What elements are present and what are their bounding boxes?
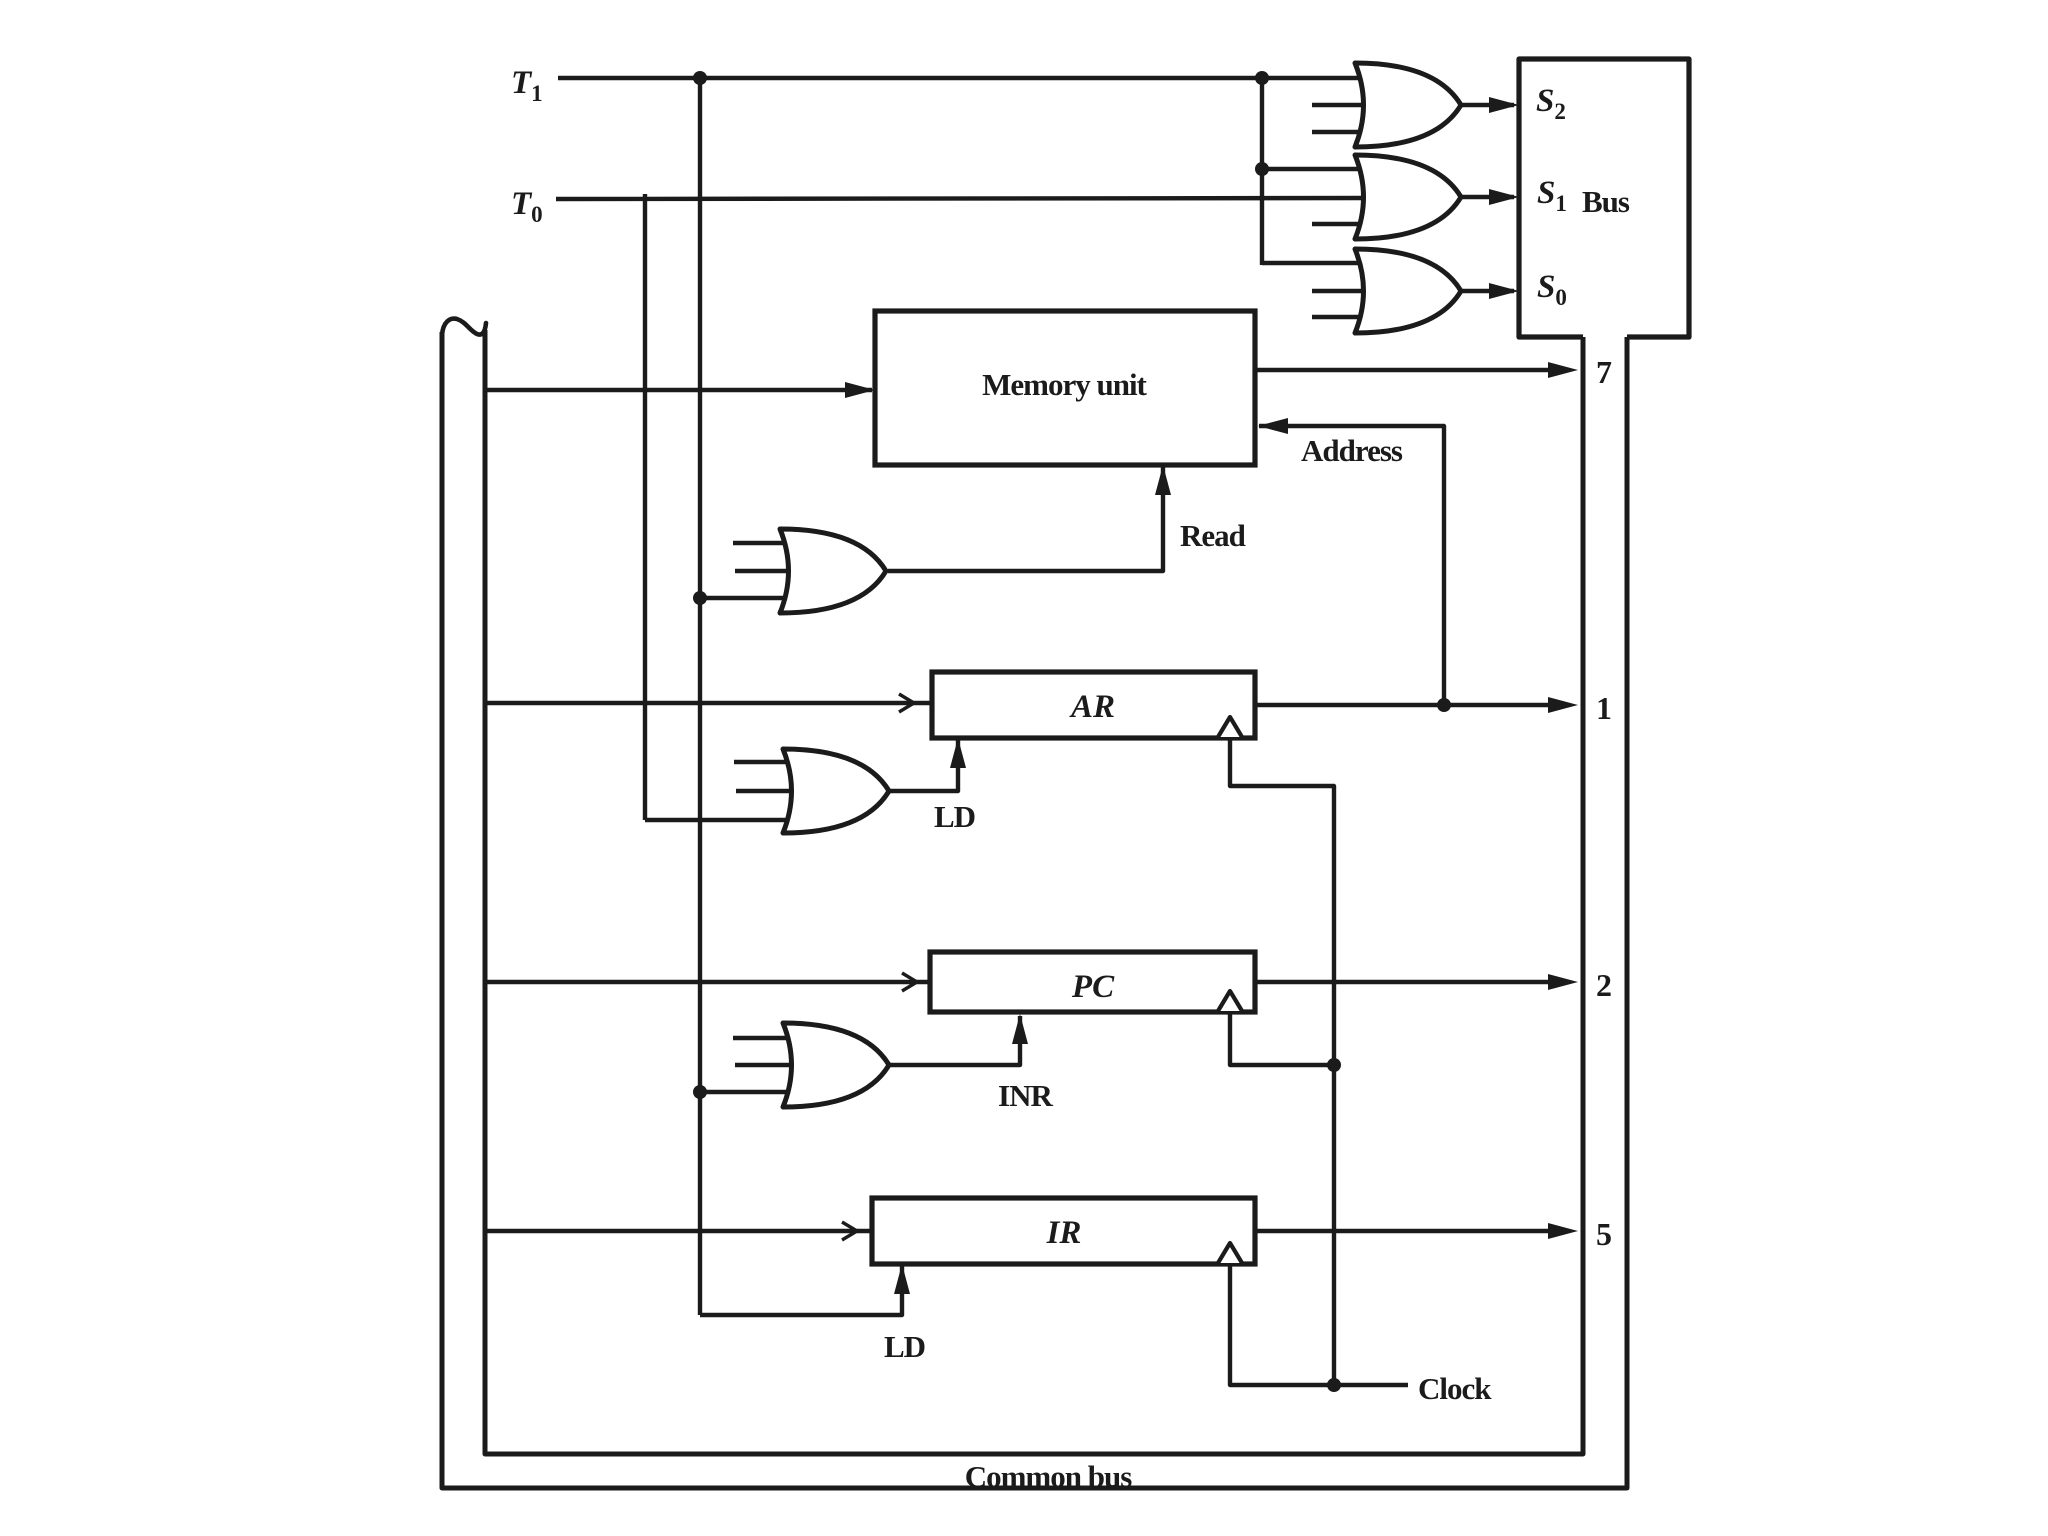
chevron arrow AR input <box>899 694 914 712</box>
svg-text:LD: LD <box>934 799 975 834</box>
arrow LD into AR <box>950 738 966 768</box>
chevron arrow PC input <box>902 973 917 991</box>
arrow bus 2 <box>1548 974 1578 990</box>
stub input LD-AR gate top <box>734 760 800 764</box>
svg-text:PC: PC <box>1071 969 1115 1005</box>
stub input LD-AR gate middle <box>736 789 798 793</box>
junction S1 branch <box>1255 162 1269 176</box>
stub input S1 gate bottom <box>1312 222 1370 226</box>
svg-text:Address: Address <box>1301 433 1403 468</box>
junction T1 right <box>1255 71 1269 85</box>
wire PC output to bus 2 <box>1255 980 1552 984</box>
g <box>1355 155 1461 239</box>
g <box>1355 249 1461 333</box>
arrow INR into PC <box>1012 1014 1028 1044</box>
wire T0 horizontal <box>556 198 1372 199</box>
chevron arrow IR input <box>842 1222 857 1240</box>
arrow read into memory <box>1155 465 1171 495</box>
wire IR clock branch <box>1230 1264 1334 1385</box>
arrow bus 1 <box>1548 697 1578 713</box>
svg-text:LD: LD <box>884 1329 925 1364</box>
stub input S2 gate middle <box>1312 103 1375 107</box>
clock caret PC <box>1218 991 1242 1011</box>
stub input read gate top <box>733 541 800 545</box>
svg-text:1: 1 <box>1596 690 1612 726</box>
wire T1 vertical trunk <box>698 78 702 1315</box>
wire branch to S1 gate top input <box>1262 167 1370 171</box>
svg-text:Clock: Clock <box>1418 1371 1492 1406</box>
wire S1 gate output <box>1461 195 1514 199</box>
junction T1 top <box>693 71 707 85</box>
wire bus to IR input <box>485 1229 872 1233</box>
svg-text:INR: INR <box>998 1078 1053 1113</box>
register AR box <box>932 672 1255 738</box>
wire clock stub <box>1334 1383 1408 1387</box>
wire LD-AR gate output <box>889 740 958 791</box>
wire T1 to INR gate <box>700 1090 800 1094</box>
stub input S0 gate middle <box>1312 289 1375 293</box>
arrow into S0 <box>1489 283 1519 299</box>
stub input S0 gate bottom <box>1312 315 1370 319</box>
wire bus to PC input <box>485 980 930 984</box>
stub input INR gate middle <box>735 1063 798 1067</box>
wire PC clock branch <box>1230 1012 1334 1065</box>
svg-text:IR: IR <box>1046 1215 1082 1251</box>
g <box>1355 63 1461 147</box>
svg-text:Read: Read <box>1180 518 1246 553</box>
wire LD of IR <box>700 1266 902 1315</box>
svg-text:7: 7 <box>1596 354 1612 390</box>
arrow address into memory <box>1258 418 1288 434</box>
stub input S2 gate bottom <box>1312 130 1370 134</box>
wire T1 branch vertical right <box>1260 78 1264 265</box>
common bus break squiggle <box>442 319 486 335</box>
arrow bus 5 <box>1548 1223 1578 1239</box>
wire branch to S0 gate top input <box>1262 261 1370 265</box>
clock caret IR <box>1218 1243 1242 1263</box>
wire S0 gate output <box>1461 289 1514 293</box>
junction address tap on AR output <box>1437 698 1451 712</box>
wire S2 gate output <box>1461 103 1514 107</box>
svg-text:Memory unit: Memory unit <box>982 367 1147 402</box>
wire bus to memory input <box>485 388 872 392</box>
arrow LD into IR <box>894 1264 910 1294</box>
svg-text:2: 2 <box>1596 967 1612 1003</box>
arrow into S2 <box>1489 97 1519 113</box>
clock caret AR <box>1218 717 1242 737</box>
wire AR output to bus 1 <box>1255 703 1552 707</box>
wire IR output to bus 5 <box>1255 1229 1552 1233</box>
g <box>783 749 889 833</box>
svg-text:AR: AR <box>1069 689 1115 725</box>
svg-text:Common bus: Common bus <box>965 1459 1133 1494</box>
register IR box <box>872 1198 1255 1264</box>
wire T0 vertical trunk <box>643 194 647 820</box>
junction clock PC <box>1327 1058 1341 1072</box>
common bus outer rail <box>442 332 1627 1488</box>
bus select box <box>1519 59 1689 337</box>
stub input read gate middle <box>735 569 795 573</box>
wire bus to AR input <box>485 701 932 705</box>
wire read gate output to memory <box>888 467 1163 571</box>
arrow memory input <box>845 382 875 398</box>
arrow bus 7 <box>1548 362 1578 378</box>
wire memory output to bus 7 <box>1255 368 1552 372</box>
g <box>780 529 886 613</box>
register PC box <box>930 952 1255 1012</box>
junction INR gate input <box>693 1085 707 1099</box>
stub input INR gate top <box>733 1036 800 1040</box>
wire T1 to read gate <box>700 596 800 600</box>
arrow into S1 <box>1489 189 1519 205</box>
junction read gate input <box>693 591 707 605</box>
wire AR clock to clock trunk <box>1230 738 1334 1385</box>
common bus inner rail <box>485 330 1583 1454</box>
wire address feedback <box>1259 426 1444 705</box>
svg-text:5: 5 <box>1596 1216 1612 1252</box>
junction clock IR <box>1327 1378 1341 1392</box>
svg-text:Bus: Bus <box>1582 184 1630 219</box>
wire T0 to LD gate of AR <box>645 818 800 822</box>
g <box>783 1023 889 1107</box>
wire T1 horizontal <box>558 76 1368 80</box>
wire INR gate output <box>889 1016 1020 1065</box>
memory unit box <box>875 311 1255 465</box>
